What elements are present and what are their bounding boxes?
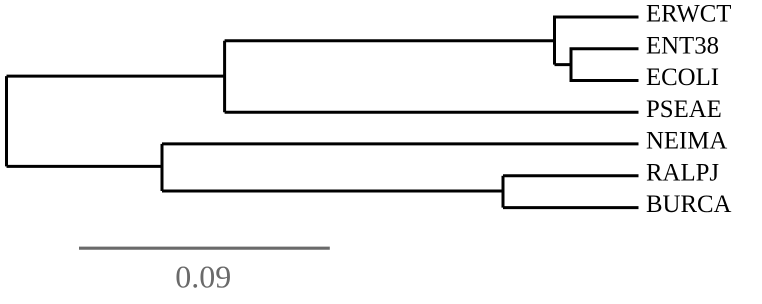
wire clade (ERWCT,(ENT38,ECOLI)) bracket: [555, 17, 639, 65]
wire branch RALPJ: [503, 174, 639, 177]
svg-text:PSEAE: PSEAE: [646, 96, 722, 123]
svg-text:ECOLI: ECOLI: [646, 64, 719, 91]
svg-text:RALPJ: RALPJ: [646, 159, 719, 186]
wire branch PSEAE: [225, 111, 639, 114]
node C vertical: [502, 176, 505, 208]
svg-text:BURCA: BURCA: [646, 191, 732, 218]
svg-text:0.09: 0.09: [175, 259, 231, 295]
svg-text:NEIMA: NEIMA: [646, 128, 727, 155]
wire stem of upper clade to node A: [225, 39, 555, 42]
scale bar: [79, 247, 330, 250]
wire branch BURCA: [503, 206, 639, 209]
wire node B to node C: [162, 190, 503, 193]
wire root top branch: [7, 75, 225, 78]
wire root bottom branch: [7, 165, 163, 168]
wire clade (ENT38,ECOLI) bracket: [571, 49, 639, 81]
node A vertical: [223, 41, 226, 112]
wire branch NEIMA: [162, 142, 639, 145]
svg-text:ENT38: ENT38: [646, 32, 719, 59]
node B vertical: [161, 144, 164, 191]
svg-text:ERWCT: ERWCT: [646, 1, 731, 28]
wire root vertical: [5, 76, 8, 166]
wire stem of (ENT38,ECOLI): [555, 63, 572, 66]
